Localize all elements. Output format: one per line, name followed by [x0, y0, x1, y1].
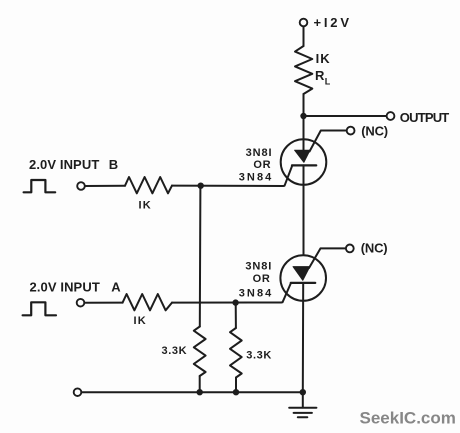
SCS U2 cathode gate diagonal: [281, 283, 291, 303]
wire R to U1 gate: [172, 185, 283, 187]
wire node A down to 3.3K: [235, 303, 237, 328]
ground symbol: [289, 408, 316, 417]
svg-text:3N84: 3N84: [239, 287, 274, 299]
wire 3.3K right to ground bus: [235, 378, 237, 393]
resistor 3.3K right (vertical zigzag): [230, 328, 242, 378]
node output junction: [300, 113, 306, 119]
svg-text:R: R: [315, 68, 325, 83]
wire R to U2 gate: [172, 302, 281, 304]
SCS U1 anode triangle: [295, 150, 310, 162]
SCS U1 cathode gate diagonal: [283, 165, 292, 186]
OUTPUT terminal: [387, 112, 395, 120]
ground bus wire: [82, 391, 303, 393]
svg-text:(NC): (NC): [361, 241, 388, 256]
wire 3.3K left to ground bus: [199, 376, 201, 392]
wire supply to R_L: [303, 27, 305, 47]
svg-text:3N84: 3N84: [239, 172, 274, 184]
input A terminal: [77, 299, 85, 307]
resistor 1K input A (horizontal zigzag): [123, 294, 172, 310]
SCS U1 cathode bar: [292, 164, 316, 166]
SCS U1 anode line inside: [303, 139, 305, 151]
svg-text:OUTPUT: OUTPUT: [400, 110, 450, 125]
SCS U2 cathode bar: [291, 282, 315, 284]
svg-text:OR: OR: [253, 273, 271, 285]
node 3.3K left / bus: [197, 389, 203, 395]
wire output node to OUTPUT terminal: [304, 115, 387, 117]
node input B / 3.3K: [198, 183, 204, 189]
node input A / 3.3K: [232, 299, 238, 305]
svg-text:3N8I: 3N8I: [246, 147, 273, 159]
NC terminal of U1: [347, 127, 355, 135]
svg-text:(NC): (NC): [361, 123, 388, 138]
svg-text:IK: IK: [134, 315, 147, 327]
svg-text:3.3K: 3.3K: [246, 350, 272, 362]
ground stub: [302, 392, 304, 407]
svg-text:L: L: [325, 77, 331, 87]
resistor R_L 1K (vertical zigzag): [295, 46, 312, 94]
svg-text:2.0V INPUT: 2.0V INPUT: [30, 279, 100, 294]
node cathode / bus: [300, 389, 306, 395]
svg-text:IK: IK: [139, 199, 152, 211]
svg-text:A: A: [111, 279, 121, 294]
pulse icon input A: [23, 302, 56, 315]
SCS U1 anode gate lead to NC: [310, 131, 347, 152]
pulse icon input B: [24, 180, 56, 192]
svg-text:IK: IK: [316, 51, 331, 66]
node 3.3K right / bus: [233, 389, 239, 395]
wire R_L to output node: [303, 94, 305, 116]
svg-text:B: B: [109, 157, 119, 172]
resistor 3.3K left (vertical zigzag): [194, 327, 206, 377]
svg-text:3.3K: 3.3K: [162, 345, 188, 357]
SCS U1 body circle: [281, 139, 327, 185]
svg-text:OR: OR: [253, 159, 271, 171]
SCS U1 cathode wire down to U2 anode: [303, 165, 305, 266]
+12V terminal: [300, 19, 308, 27]
svg-text:SeekIC.com: SeekIC.com: [360, 409, 456, 428]
SCS U2 body circle: [280, 255, 326, 301]
wire output node to U1 anode: [303, 116, 305, 151]
SCS U2 cathode wire to ground bus: [302, 283, 304, 392]
ground bus terminal: [74, 388, 82, 396]
SCS U2 anode triangle: [293, 267, 310, 281]
wire input B to R 1K: [85, 185, 125, 187]
svg-text:3N8I: 3N8I: [245, 260, 272, 272]
wire node B down to 3.3K: [199, 186, 202, 327]
NC terminal of U2: [346, 245, 354, 253]
wire input A to R 1K: [85, 302, 123, 304]
resistor 1K input B (horizontal zigzag): [125, 177, 172, 193]
SCS U2 anode gate lead to NC: [309, 248, 346, 268]
svg-text:+I2V: +I2V: [314, 15, 352, 30]
svg-text:2.0V INPUT: 2.0V INPUT: [29, 157, 99, 172]
input B terminal: [77, 182, 85, 190]
